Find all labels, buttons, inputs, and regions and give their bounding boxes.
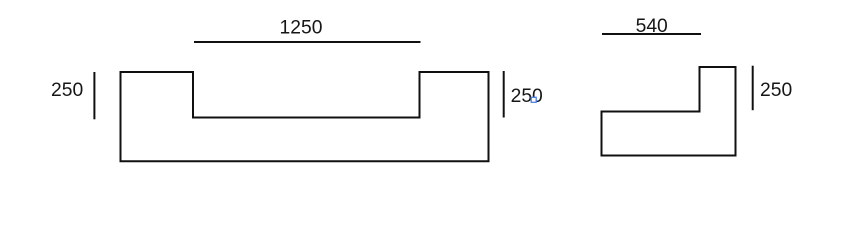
svg-text:250: 250: [511, 86, 543, 107]
svg-text:250: 250: [760, 80, 792, 101]
dimension line 250 (right figure): [752, 66, 754, 111]
L profile outline (right figure): [602, 67, 736, 156]
channel profile outline (left figure): [121, 72, 489, 161]
svg-text:250: 250: [51, 80, 83, 101]
dimension line 1250: [194, 41, 421, 43]
left dimension line 250: [93, 72, 95, 119]
svg-text:540: 540: [636, 16, 668, 37]
dimension line 540: [602, 33, 701, 35]
right dimension line 250 (left figure): [503, 71, 505, 118]
svg-text:1250: 1250: [280, 17, 323, 38]
selection handle (small blue square over the 0): [531, 97, 536, 102]
